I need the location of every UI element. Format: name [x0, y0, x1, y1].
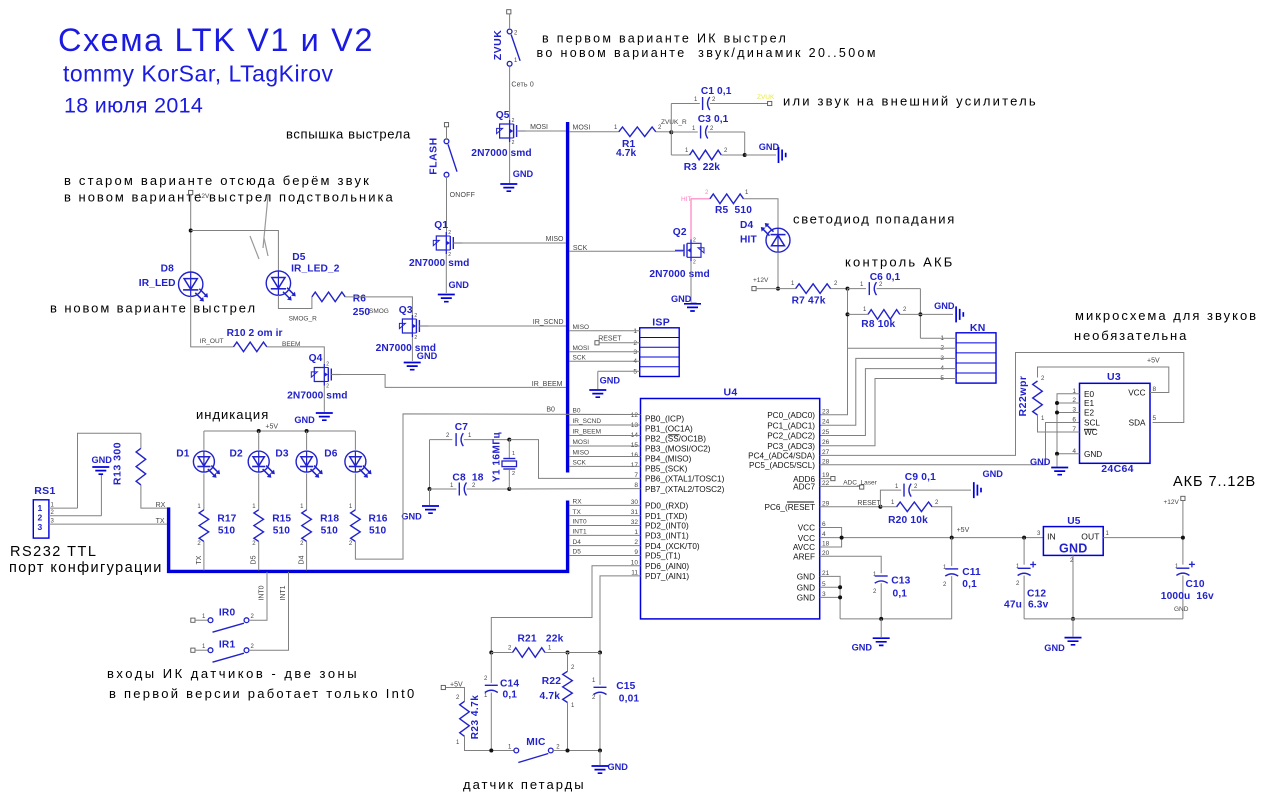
svg-text:tommy KorSar, LTagKirov: tommy KorSar, LTagKirov: [63, 61, 334, 87]
svg-text:2: 2: [693, 237, 696, 243]
svg-text:PD6_(AIN0): PD6_(AIN0): [645, 562, 689, 571]
svg-text:Q5: Q5: [496, 110, 510, 121]
svg-text:20: 20: [822, 550, 830, 557]
svg-text:GND: GND: [600, 375, 621, 385]
svg-text:PC1_(ADC1): PC1_(ADC1): [767, 421, 815, 430]
svg-text:5: 5: [822, 581, 826, 588]
svg-text:PC5_(ADC5/SCL): PC5_(ADC5/SCL): [749, 461, 815, 470]
svg-text:IR1: IR1: [219, 639, 236, 650]
svg-text:индикация: индикация: [196, 407, 269, 422]
svg-text:Q3: Q3: [399, 305, 413, 316]
svg-text:D6: D6: [324, 449, 338, 460]
svg-text:в первой версии работает тольк: в первой версии работает только Int0: [109, 686, 416, 701]
svg-text:RX: RX: [156, 502, 166, 509]
svg-text:PD3_(INT1): PD3_(INT1): [645, 532, 689, 541]
svg-text:или звук на внешний усилитель: или звук на внешний усилитель: [783, 94, 1038, 109]
svg-text:2: 2: [693, 259, 696, 265]
svg-text:32: 32: [631, 519, 639, 526]
svg-text:RS232 TTL: RS232 TTL: [10, 544, 97, 560]
svg-text:2: 2: [512, 140, 515, 146]
svg-text:510: 510: [321, 526, 339, 537]
svg-text:RESET: RESET: [598, 336, 622, 343]
svg-text:C11: C11: [962, 567, 981, 578]
svg-text:GND: GND: [608, 762, 629, 772]
svg-text:IR_LED: IR_LED: [139, 278, 176, 289]
svg-text:GND: GND: [1059, 542, 1088, 556]
svg-text:PD0_(RXD): PD0_(RXD): [645, 502, 688, 511]
svg-text:R10 2 om ir: R10 2 om ir: [227, 328, 283, 339]
svg-text:GND: GND: [1174, 606, 1189, 613]
svg-text:SCK: SCK: [573, 245, 588, 252]
svg-text:KN: KN: [970, 322, 986, 334]
svg-text:GND: GND: [797, 584, 815, 593]
svg-text:ZVUK_R: ZVUK_R: [661, 119, 687, 126]
svg-text:C10: C10: [1186, 579, 1205, 590]
svg-text:GND_: GND_: [671, 294, 697, 304]
svg-text:0,1: 0,1: [503, 690, 518, 701]
svg-text:C14: C14: [500, 678, 519, 689]
svg-text:GND: GND: [513, 169, 534, 179]
svg-text:MIC: MIC: [526, 737, 546, 748]
svg-text:D4: D4: [573, 539, 582, 546]
svg-text:18: 18: [822, 541, 830, 548]
svg-text:3: 3: [822, 591, 826, 598]
svg-text:2: 2: [414, 313, 417, 319]
svg-text:IN: IN: [1047, 532, 1056, 542]
svg-text:PC4_(ADC4/SDA): PC4_(ADC4/SDA): [748, 452, 815, 461]
svg-text:12: 12: [631, 412, 639, 419]
svg-text:U3: U3: [1107, 371, 1121, 383]
svg-text:SMOG_R: SMOG_R: [289, 315, 317, 322]
svg-text:SMOG: SMOG: [369, 308, 389, 315]
svg-text:18 июля 2014: 18 июля 2014: [64, 94, 203, 118]
svg-text:PB7_(XTAL2/TOSC2): PB7_(XTAL2/TOSC2): [645, 485, 725, 494]
svg-text:R6: R6: [353, 294, 366, 305]
svg-text:MOSI: MOSI: [573, 439, 590, 446]
svg-text:2N7000 smd: 2N7000 smd: [649, 269, 709, 280]
svg-text:+5V: +5V: [1147, 358, 1160, 365]
svg-text:MOSI: MOSI: [573, 345, 590, 352]
svg-text:RX: RX: [573, 499, 583, 506]
svg-text:2: 2: [326, 362, 329, 368]
svg-text:PB4_(MISO): PB4_(MISO): [645, 455, 692, 464]
svg-text:PC6_(RESET: PC6_(RESET: [764, 503, 815, 512]
svg-text:AVCC: AVCC: [793, 543, 815, 552]
svg-text:C3 0,1: C3 0,1: [698, 114, 729, 125]
svg-text:ZVUK: ZVUK: [492, 30, 504, 61]
svg-text:MISO: MISO: [546, 236, 564, 243]
svg-text:2: 2: [414, 335, 417, 341]
svg-text:R16: R16: [369, 513, 388, 524]
svg-text:IR_BEEM: IR_BEEM: [573, 429, 602, 436]
svg-text:4.7k: 4.7k: [616, 148, 636, 159]
svg-text:GND: GND: [449, 280, 470, 290]
svg-text:D5: D5: [573, 549, 582, 556]
svg-text:PB5_(SCK): PB5_(SCK): [645, 465, 688, 474]
svg-text:R7 47k: R7 47k: [792, 295, 826, 306]
svg-text:PC0_(ADC0): PC0_(ADC0): [767, 411, 815, 420]
svg-text:U5: U5: [1067, 516, 1081, 527]
svg-text:R3 22k: R3 22k: [684, 162, 721, 173]
svg-text:2: 2: [448, 230, 451, 236]
svg-text:1: 1: [512, 451, 515, 457]
svg-text:510: 510: [369, 526, 387, 537]
svg-text:MISO: MISO: [573, 450, 590, 457]
svg-text:11: 11: [631, 569, 638, 576]
svg-text:D3: D3: [275, 449, 289, 460]
svg-text:0,01: 0,01: [619, 693, 640, 704]
svg-text:24: 24: [822, 419, 830, 426]
svg-text:D4: D4: [740, 220, 754, 231]
svg-text:4: 4: [822, 531, 826, 538]
svg-text:4.7k: 4.7k: [540, 691, 561, 702]
svg-text:C8 18: C8 18: [452, 473, 483, 484]
svg-text:PB6_(XTAL1/TOSC1): PB6_(XTAL1/TOSC1): [645, 475, 725, 484]
svg-text:D1: D1: [176, 449, 190, 460]
svg-text:8: 8: [634, 482, 638, 489]
svg-text:OUT: OUT: [1081, 532, 1099, 542]
svg-text:IR_SCND: IR_SCND: [533, 319, 564, 326]
svg-text:PD7_(AIN1): PD7_(AIN1): [645, 572, 689, 581]
svg-text:2N7000 smd: 2N7000 smd: [287, 390, 347, 401]
svg-text:входы ИК датчиков - две зоны: входы ИК датчиков - две зоны: [107, 666, 359, 681]
svg-text:PD5_(T1): PD5_(T1): [645, 552, 681, 561]
svg-text:TX: TX: [196, 555, 203, 564]
svg-text:PD1_(TXD): PD1_(TXD): [645, 512, 688, 521]
svg-text:GND: GND: [934, 301, 955, 311]
svg-text:GND: GND: [1030, 457, 1051, 467]
svg-text:24C64: 24C64: [1101, 463, 1133, 475]
svg-text:GND: GND: [417, 351, 438, 361]
svg-text:светодиод попадания: светодиод попадания: [793, 212, 956, 227]
svg-text:21: 21: [822, 570, 830, 577]
svg-text:INT0: INT0: [259, 585, 266, 600]
svg-text:16: 16: [631, 452, 639, 459]
svg-text:PB2_(SS/OC1B): PB2_(SS/OC1B): [645, 435, 706, 444]
svg-text:GND: GND: [797, 573, 815, 582]
svg-text:2: 2: [512, 471, 515, 477]
svg-text:1: 1: [38, 503, 43, 513]
svg-text:PC2_(ADC2): PC2_(ADC2): [767, 432, 815, 441]
svg-text:во новом варианте звук/динами: во новом варианте звук/динамик 20..50ом: [537, 46, 878, 60]
svg-text:C13: C13: [891, 576, 910, 587]
svg-text:2: 2: [326, 384, 329, 390]
svg-text:R23 4.7k: R23 4.7k: [470, 695, 481, 740]
svg-text:D8: D8: [161, 264, 175, 275]
svg-text:9: 9: [634, 549, 638, 556]
svg-text:2N7000 smd: 2N7000 smd: [471, 148, 531, 159]
svg-text:SCK: SCK: [573, 460, 587, 467]
svg-text:C1 0,1: C1 0,1: [701, 86, 732, 97]
svg-text:ISP: ISP: [652, 317, 670, 329]
svg-text:0,1: 0,1: [962, 579, 977, 590]
svg-text:TX: TX: [573, 509, 582, 516]
svg-text:ADC7: ADC7: [793, 483, 815, 492]
svg-text:GND: GND: [797, 594, 815, 603]
svg-text:19: 19: [822, 472, 830, 479]
svg-text:7: 7: [634, 472, 638, 479]
svg-text:Q1: Q1: [434, 220, 448, 231]
svg-text:C15: C15: [616, 681, 635, 692]
svg-text:GND: GND: [92, 455, 113, 465]
svg-text:ADC_Laser: ADC_Laser: [843, 480, 877, 487]
svg-text:IR_BEEM: IR_BEEM: [532, 381, 563, 388]
svg-text:IR0: IR0: [219, 607, 236, 618]
svg-text:PD4_(XCK/T0): PD4_(XCK/T0): [645, 542, 700, 551]
svg-text:Y1 16МГц: Y1 16МГц: [492, 432, 503, 483]
svg-text:26: 26: [822, 439, 830, 446]
svg-text:VCC: VCC: [798, 534, 815, 543]
svg-text:GND: GND: [294, 415, 315, 425]
svg-text:R18: R18: [320, 513, 339, 524]
svg-text:GND: GND: [852, 643, 873, 653]
svg-text:C12: C12: [1027, 589, 1046, 600]
svg-text:GND: GND: [759, 142, 780, 152]
svg-text:PB0_(ICP): PB0_(ICP): [645, 415, 684, 424]
svg-text:B0: B0: [573, 408, 581, 415]
svg-text:Q4: Q4: [309, 353, 323, 364]
svg-text:INT1: INT1: [573, 529, 587, 536]
svg-text:R8 10k: R8 10k: [861, 319, 895, 330]
svg-text:PB1_(OC1A): PB1_(OC1A): [645, 425, 693, 434]
svg-text:+12V: +12V: [1164, 499, 1180, 506]
svg-text:в первом варианте ИК выстрел: в первом варианте ИК выстрел: [542, 32, 788, 46]
svg-text:Схема LTK V1 и V2: Схема LTK V1 и V2: [58, 22, 374, 58]
svg-text:3: 3: [38, 522, 43, 532]
svg-text:B0: B0: [546, 406, 555, 413]
svg-text:ZVUK: ZVUK: [757, 94, 775, 101]
svg-text:вспышка выстрела: вспышка выстрела: [286, 127, 411, 142]
svg-text:D4: D4: [299, 555, 306, 564]
svg-text:27: 27: [822, 449, 830, 456]
svg-text:28: 28: [822, 458, 830, 465]
svg-text:Сеть 0: Сеть 0: [511, 82, 534, 89]
svg-text:+12V: +12V: [194, 193, 210, 200]
svg-text:FLASH: FLASH: [428, 137, 440, 175]
svg-text:D2: D2: [230, 449, 244, 460]
svg-text:2N7000 smd: 2N7000 smd: [409, 258, 469, 269]
svg-text:MOSI: MOSI: [530, 124, 548, 131]
svg-text:10: 10: [631, 559, 639, 566]
svg-text:25: 25: [822, 429, 830, 436]
svg-text:SDA: SDA: [1129, 419, 1146, 428]
svg-text:C9 0,1: C9 0,1: [905, 472, 936, 483]
svg-text:порт конфигурации: порт конфигурации: [9, 560, 163, 576]
svg-text:MOSI: MOSI: [573, 125, 591, 132]
svg-text:D5: D5: [292, 252, 306, 263]
svg-text:SCK: SCK: [573, 355, 587, 362]
svg-text:GND: GND: [1044, 643, 1065, 653]
svg-text:17: 17: [631, 462, 639, 469]
svg-text:1000u 16v: 1000u 16v: [1161, 591, 1214, 602]
svg-text:R15: R15: [272, 513, 291, 524]
svg-text:PD2_(INT0): PD2_(INT0): [645, 522, 689, 531]
svg-text:U4: U4: [724, 387, 738, 399]
svg-text:PC3_(ADC3): PC3_(ADC3): [767, 442, 815, 451]
svg-text:IR_LED_2: IR_LED_2: [291, 264, 340, 275]
svg-text:22: 22: [822, 480, 830, 487]
svg-text:E1: E1: [1084, 399, 1094, 408]
svg-text:5: 5: [1153, 415, 1157, 422]
svg-text:RS1: RS1: [34, 485, 55, 497]
svg-text:в новом варианте выстрел: в новом варианте выстрел: [50, 301, 257, 316]
svg-text:15: 15: [631, 442, 639, 449]
svg-text:необязательна: необязательна: [1074, 328, 1188, 343]
svg-text:HIT: HIT: [740, 235, 757, 246]
svg-text:C6 0,1: C6 0,1: [870, 272, 901, 283]
svg-text:2: 2: [38, 513, 43, 523]
svg-text:23: 23: [822, 408, 830, 415]
svg-text:MISO: MISO: [573, 324, 590, 331]
svg-text:контроль АКБ: контроль АКБ: [845, 255, 955, 270]
svg-text:510: 510: [273, 526, 291, 537]
svg-text:0,1: 0,1: [893, 589, 908, 600]
svg-text:в старом варианте отсюда берём: в старом варианте отсюда берём звук: [64, 173, 371, 188]
svg-text:D5: D5: [251, 555, 258, 564]
svg-text:INT1: INT1: [280, 585, 287, 600]
svg-text:6: 6: [1072, 417, 1076, 424]
svg-text:INT0: INT0: [573, 519, 587, 526]
svg-text:RESET: RESET: [857, 500, 881, 507]
svg-text:8: 8: [1153, 386, 1157, 393]
svg-text:R17: R17: [217, 513, 236, 524]
svg-text:GND: GND: [983, 469, 1004, 479]
svg-text:1: 1: [634, 529, 638, 536]
svg-text:микросхема для звуков: микросхема для звуков: [1075, 308, 1258, 323]
svg-text:E0: E0: [1084, 390, 1094, 399]
svg-text:R22: R22: [542, 676, 561, 687]
svg-text:АКБ 7..12В: АКБ 7..12В: [1173, 474, 1256, 490]
svg-text:SCL: SCL: [1084, 419, 1100, 428]
svg-text:E2: E2: [1084, 409, 1094, 418]
svg-text:2: 2: [512, 118, 515, 124]
svg-text:29: 29: [822, 500, 830, 507]
svg-text:R21 22k: R21 22k: [518, 633, 564, 644]
svg-text:R5 510: R5 510: [715, 205, 752, 216]
svg-text:31: 31: [631, 509, 639, 516]
svg-text:R22wpr: R22wpr: [1017, 376, 1029, 417]
svg-text:в новом варианте выстрел подст: в новом варианте выстрел подствольника: [64, 190, 395, 205]
svg-text:TX: TX: [156, 518, 165, 525]
svg-text:GND: GND: [1084, 450, 1102, 459]
svg-text:AREF: AREF: [793, 553, 815, 562]
svg-text:30: 30: [631, 499, 639, 506]
svg-text:+5V: +5V: [265, 423, 278, 430]
svg-text:Q2: Q2: [673, 227, 687, 238]
svg-text:2: 2: [634, 539, 638, 546]
svg-text:IR_OUT: IR_OUT: [200, 338, 224, 345]
svg-text:VCC: VCC: [798, 524, 815, 533]
svg-text:HIT: HIT: [681, 196, 692, 203]
svg-text:R20 10k: R20 10k: [888, 515, 928, 526]
svg-text:+12V: +12V: [753, 277, 769, 284]
svg-text:PB3_(MOSI/OC2): PB3_(MOSI/OC2): [645, 445, 711, 454]
svg-text:ONOFF: ONOFF: [450, 192, 476, 199]
svg-text:IR_SCND: IR_SCND: [573, 418, 602, 425]
svg-text:6: 6: [822, 521, 826, 528]
svg-text:GND: GND: [401, 512, 422, 522]
svg-text:C7: C7: [455, 422, 469, 433]
svg-text:250: 250: [353, 307, 371, 318]
svg-text:47u 6.3v: 47u 6.3v: [1004, 599, 1049, 610]
svg-text:+5V: +5V: [957, 527, 970, 534]
svg-text:VCC: VCC: [1128, 389, 1145, 398]
svg-text:510: 510: [218, 526, 236, 537]
svg-text:R13 300: R13 300: [112, 442, 124, 485]
svg-text:датчик петарды: датчик петарды: [463, 777, 586, 792]
